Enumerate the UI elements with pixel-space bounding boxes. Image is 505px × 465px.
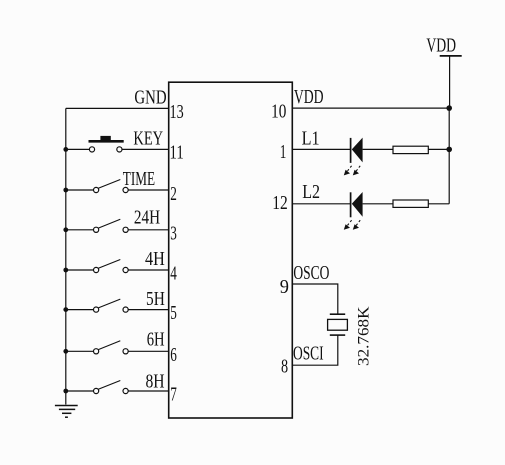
svg-text:4: 4 <box>170 263 177 285</box>
svg-text:8H: 8H <box>146 371 165 393</box>
node L1 rail junction <box>446 147 452 153</box>
node 24H rail junction <box>63 227 68 232</box>
wire pin 12 to LED L2 <box>292 203 351 205</box>
node 8H rail junction <box>63 389 68 394</box>
node KEY rail junction <box>63 147 68 152</box>
wire resistor R1 to rail <box>428 148 449 150</box>
switch 8H S7 <box>66 381 169 394</box>
ground <box>55 406 78 418</box>
svg-text:3: 3 <box>170 222 177 244</box>
node 5H rail junction <box>63 307 68 312</box>
switch 4H S4 <box>66 260 169 273</box>
pushbutton KEY S1 <box>66 136 169 152</box>
switch 6H S6 <box>66 341 169 354</box>
svg-text:5: 5 <box>170 302 177 324</box>
svg-text:32.768K: 32.768K <box>355 306 372 366</box>
svg-text:OSCO: OSCO <box>293 262 329 284</box>
wire LED L1 to resistor R1 <box>363 148 393 150</box>
svg-text:TIME: TIME <box>123 168 155 190</box>
wire LED L2 to resistor R2 <box>363 203 393 205</box>
VDD power symbol <box>426 34 461 108</box>
svg-text:11: 11 <box>170 141 184 163</box>
svg-text:13: 13 <box>170 101 184 123</box>
wire resistor R2 to rail <box>428 203 449 205</box>
svg-text:8: 8 <box>281 356 288 378</box>
svg-text:GND: GND <box>134 87 166 109</box>
svg-text:L2: L2 <box>302 181 320 203</box>
svg-text:OSCI: OSCI <box>293 343 324 365</box>
left ground rail <box>65 108 67 404</box>
right VDD rail <box>448 108 450 204</box>
LED L2 <box>344 192 363 230</box>
switch 5H S5 <box>66 299 169 312</box>
switch 24H S3 <box>66 219 169 232</box>
node 4H rail junction <box>63 268 68 273</box>
svg-text:10: 10 <box>271 100 286 122</box>
svg-text:6H: 6H <box>147 329 165 351</box>
svg-text:VDD: VDD <box>426 34 456 56</box>
wire pin 1 to LED L1 <box>292 148 351 150</box>
wire pin 13 GND to left rail <box>66 107 169 109</box>
svg-text:6: 6 <box>170 344 177 366</box>
crystal Y1 <box>328 314 348 335</box>
svg-text:9: 9 <box>280 276 289 298</box>
svg-text:12: 12 <box>272 192 288 214</box>
svg-text:2: 2 <box>170 183 177 205</box>
wire crystal to pin 8 OSCI <box>292 335 338 365</box>
IC U1 body <box>169 82 293 418</box>
svg-text:KEY: KEY <box>133 128 163 150</box>
svg-text:L1: L1 <box>302 127 320 149</box>
svg-text:1: 1 <box>280 141 287 163</box>
svg-text:VDD: VDD <box>294 86 324 108</box>
svg-text:24H: 24H <box>134 207 160 229</box>
node 6H rail junction <box>63 349 68 354</box>
svg-text:4H: 4H <box>145 248 165 270</box>
resistor R1 <box>393 146 428 153</box>
node TIME rail junction <box>63 188 68 193</box>
wire pin 10 VDD to right rail <box>292 107 449 109</box>
svg-text:5H: 5H <box>146 288 165 310</box>
node VDD rail junction <box>446 105 452 111</box>
svg-text:7: 7 <box>170 384 177 406</box>
switch TIME S2 <box>66 180 169 193</box>
LED L1 <box>344 138 363 176</box>
wire pin 9 OSCO to crystal <box>292 284 338 314</box>
resistor R2 <box>393 200 428 207</box>
